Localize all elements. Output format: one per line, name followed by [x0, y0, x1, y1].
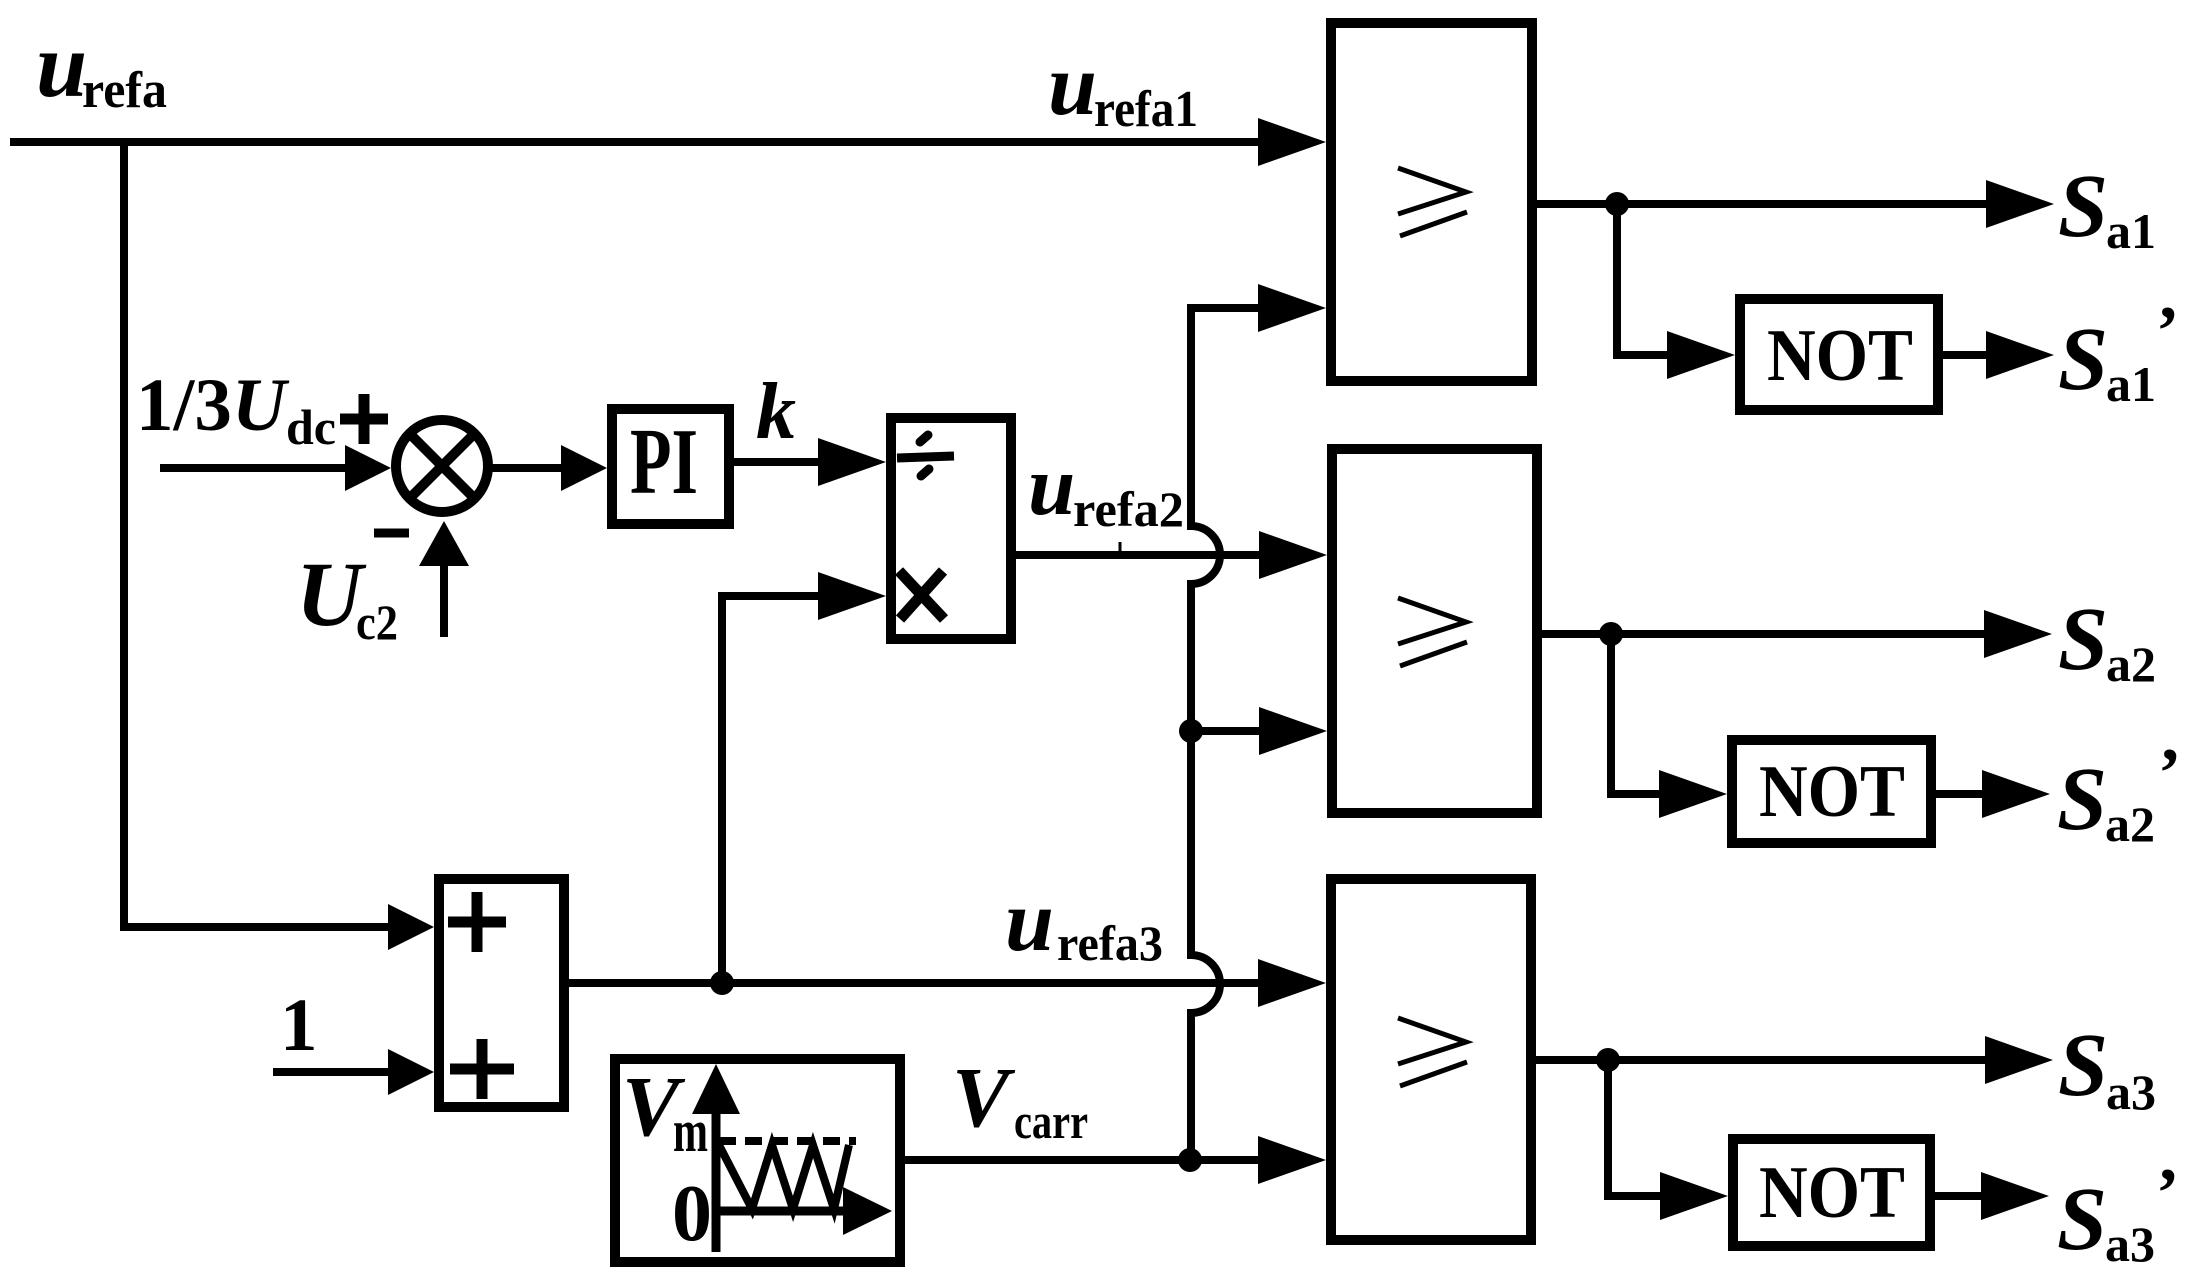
arrowhead into NOT1 — [1667, 331, 1735, 379]
wire branch to NOT3 — [1608, 1060, 1661, 1196]
svg-text:0: 0 — [672, 1170, 712, 1258]
junction dot bus comparator2 — [1179, 719, 1203, 743]
divider-multiplier box — [891, 418, 1011, 639]
multiply sign in divider box — [899, 571, 944, 619]
arrowhead into comparator3 input2 — [1258, 1136, 1326, 1184]
wire adder-output to multiplier input — [722, 596, 819, 983]
junction dot bus V_carr — [1178, 1148, 1202, 1172]
arrowhead S_a3p — [1981, 1172, 2049, 1220]
svg-text:c2: c2 — [356, 594, 398, 650]
svg-text:S: S — [2057, 1170, 2107, 1269]
svg-text:a3: a3 — [2106, 1064, 2156, 1120]
wire 1/3Udc input — [160, 464, 346, 472]
wire NOT1 output — [1943, 351, 1987, 359]
svg-text:’: ’ — [2158, 735, 2181, 812]
svg-text:S: S — [2058, 1016, 2108, 1115]
tick mark on u_refa2 wire — [1119, 542, 1122, 551]
svg-text:m: m — [673, 1098, 708, 1164]
wire circle to PI — [492, 464, 562, 472]
svg-text:refa: refa — [82, 62, 167, 119]
arrowhead k into divider — [818, 438, 886, 486]
wire branch to adder input 1 — [120, 923, 390, 931]
svg-text:a3: a3 — [2105, 1216, 2155, 1272]
carrier H axis — [716, 1207, 845, 1216]
carrier generator box — [615, 1059, 900, 1262]
wire comparator2 output — [1542, 630, 1985, 638]
arrowhead into adder input1 — [388, 904, 434, 950]
comparator2 box — [1332, 449, 1537, 813]
wire comparator3 output — [1536, 1056, 1986, 1064]
svg-text:S: S — [2058, 310, 2108, 409]
svg-text:refa1: refa1 — [1094, 81, 1198, 138]
minus sign at Uc2 — [374, 529, 409, 538]
svg-text:’: ’ — [2156, 293, 2179, 370]
svg-text:NOT: NOT — [1759, 1152, 1905, 1234]
svg-text:u: u — [1028, 439, 1075, 533]
svg-text:NOT: NOT — [1759, 751, 1905, 833]
arrowhead S_a3 — [1985, 1036, 2053, 1084]
svg-text:dc: dc — [286, 399, 336, 455]
wire u_refa3 adder output — [569, 979, 1259, 987]
svg-text:a1: a1 — [2106, 356, 2156, 412]
svg-text:u: u — [1048, 37, 1097, 134]
wire NOT3 output — [1935, 1192, 1982, 1200]
junction dot adder output — [710, 971, 734, 995]
wire Uc2 vertical — [440, 566, 448, 637]
svg-text:S: S — [2058, 590, 2108, 689]
plus sign bottom in adder — [450, 1039, 514, 1099]
wire constant 1 input — [273, 1068, 389, 1076]
comparator3 box — [1331, 879, 1531, 1240]
svg-text:U: U — [232, 364, 290, 447]
arrowhead into NOT2 — [1659, 770, 1727, 818]
carrier V axis — [712, 1114, 721, 1252]
arrowhead S_a1p — [1986, 331, 2054, 379]
wire bus to comparator1 input 2 — [1187, 304, 1259, 312]
wire u_refa2 divider output — [1016, 551, 1260, 559]
plus sign top in adder — [448, 892, 506, 952]
arrowhead up into circle bottom — [419, 521, 469, 566]
svg-text:u: u — [1005, 873, 1054, 970]
svg-text:carr: carr — [1014, 1093, 1088, 1149]
geq symbol comparator3 — [1398, 1018, 1467, 1086]
geq symbol comparator2 — [1398, 598, 1467, 666]
summing junction circle — [396, 420, 488, 512]
arrowhead into adder input2 — [388, 1049, 434, 1095]
wire u_refa main line — [10, 138, 1259, 146]
carrier triangle wave — [719, 1145, 849, 1209]
svg-text:1: 1 — [280, 984, 318, 1067]
NOT3 box — [1733, 1139, 1930, 1246]
circle X diagonal 1 — [410, 434, 475, 499]
svg-text:V: V — [952, 1049, 1016, 1145]
wire branch to NOT1 — [1617, 204, 1668, 355]
arrowhead into comparator1 input2 — [1258, 284, 1326, 332]
wire branch to NOT2 — [1611, 634, 1660, 794]
wire vertical carrier bus with hops — [1191, 308, 1220, 1160]
carrier V axis arrowhead — [692, 1064, 740, 1114]
junction dot comparator2 output — [1599, 622, 1623, 646]
svg-text:u: u — [36, 14, 87, 116]
divide sign in divider box — [897, 435, 954, 476]
wire NOT2 output — [1936, 790, 1983, 798]
carrier dashed Vm level — [719, 1137, 856, 1145]
carrier H axis arrowhead — [843, 1187, 892, 1235]
arrowhead into comparator1 input1 — [1258, 118, 1326, 166]
arrowhead into NOT3 — [1660, 1172, 1728, 1220]
wire bus to comparator2 input 2 — [1191, 727, 1260, 735]
junction dot comparator3 output — [1596, 1048, 1620, 1072]
plus sign at 1/3Udc — [340, 394, 388, 444]
arrowhead S_a2 — [1984, 610, 2052, 658]
svg-text:a2: a2 — [2106, 636, 2156, 692]
svg-text:S: S — [2058, 157, 2108, 256]
wire PI to divider — [734, 458, 819, 466]
adder box — [439, 879, 564, 1107]
svg-text:refa2: refa2 — [1073, 481, 1184, 537]
svg-text:a2: a2 — [2105, 796, 2155, 852]
wire V_carr output — [905, 1156, 1259, 1164]
arrowhead S_a1 — [1986, 180, 2054, 228]
svg-text:’: ’ — [2156, 1155, 2179, 1232]
arrowhead into PI — [561, 445, 607, 491]
arrowhead into comparator3 input1 — [1258, 959, 1326, 1007]
wire comparator1 output — [1537, 200, 1987, 208]
arrowhead S_a2p — [1982, 770, 2050, 818]
svg-text:refa3: refa3 — [1057, 915, 1163, 971]
svg-text:S: S — [2057, 750, 2107, 849]
svg-text:NOT: NOT — [1767, 315, 1913, 397]
svg-text:k: k — [756, 368, 796, 456]
arrowhead into comparator2 input1 — [1259, 531, 1327, 579]
arrowhead into summing circle — [345, 445, 391, 491]
svg-text:a1: a1 — [2106, 203, 2156, 259]
NOT1 box — [1740, 299, 1938, 410]
arrowhead into multiplier input — [818, 572, 886, 620]
svg-text:PI: PI — [630, 410, 698, 514]
comparator1 box — [1331, 23, 1532, 381]
arrowhead into comparator2 input2 — [1259, 707, 1327, 755]
geq symbol comparator1 — [1398, 168, 1467, 236]
NOT2 box — [1732, 740, 1931, 843]
junction dot comparator1 output — [1605, 192, 1629, 216]
svg-text:1/3: 1/3 — [136, 364, 232, 447]
circle X diagonal 2 — [410, 434, 475, 499]
wire u_refa branch vertical — [120, 138, 128, 927]
PI box — [612, 409, 729, 524]
